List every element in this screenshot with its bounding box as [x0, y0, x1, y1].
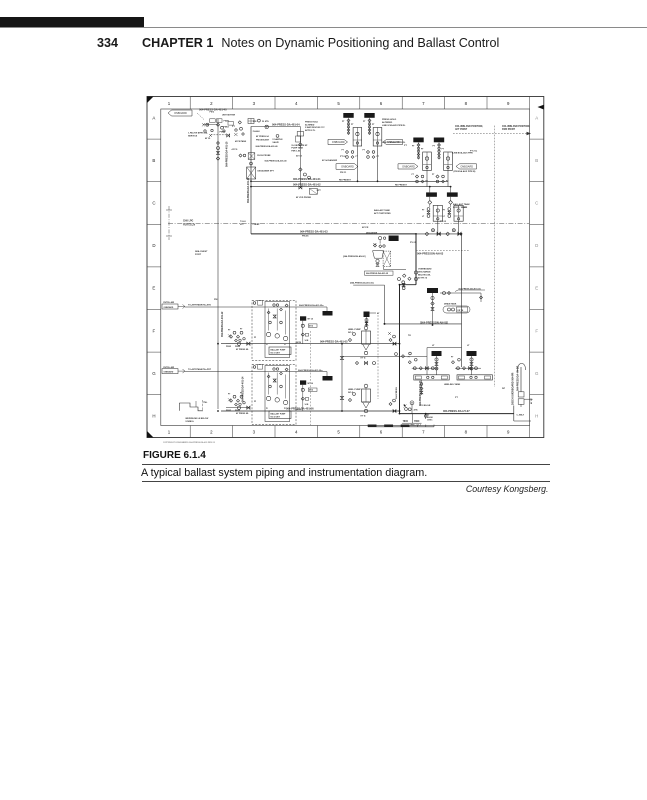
wire top horizontal H1 [251, 126, 300, 128]
ballast pump unit 2 [252, 365, 296, 425]
valve pair on V8 [414, 271, 417, 274]
svg-text:BELOW LWL: BELOW LWL [418, 274, 431, 276]
elbow rect gauge [297, 132, 303, 137]
svg-text:TO+WTRTANK/TA+PRT: TO+WTRTANK/TA+PRT [188, 368, 212, 371]
svg-text:7800: 7800 [403, 420, 409, 423]
H14 junction valves [389, 403, 392, 406]
svg-text:PM DESCENT: PM DESCENT [256, 140, 270, 142]
svg-text:B: B [535, 158, 538, 163]
wire vertical V1 tank feed [217, 119, 219, 409]
bottom instrument stack [410, 401, 414, 405]
svg-text:064-PRESS-DA-401-03: 064-PRESS-DA-401-03 [300, 230, 328, 234]
svg-text:064-PRESS-DA-401-05: 064-PRESS-DA-401-05 [320, 339, 348, 343]
svg-text:PT 21a: PT 21a [470, 151, 478, 153]
svg-text:H: H [152, 414, 155, 419]
svg-text:DR TK: DR TK [458, 310, 464, 312]
svg-text:CNTRL AIR: CNTRL AIR [163, 366, 175, 369]
svg-text:E: E [535, 286, 538, 291]
wire pump discharge H14 [221, 410, 400, 412]
drop assembly C13 [427, 288, 438, 293]
svg-text:COPYRIGHT KONGSBERG 064-PRESS: COPYRIGHT KONGSBERG 064-PRESS-DA-401 REV… [163, 441, 216, 444]
svg-text:TO+WTRTANK/TA+STD: TO+WTRTANK/TA+STD [188, 304, 211, 307]
instrument chain IC1 [300, 316, 306, 320]
instrument dashed H6 [416, 250, 470, 252]
svg-text:SEA CHEST: SEA CHEST [195, 250, 208, 253]
svg-text:OVERBOARD: OVERBOARD [418, 267, 432, 270]
wire bottom main H15 heavy [400, 413, 514, 415]
ballast pump unit 1 [252, 301, 296, 361]
svg-text:AT DP: AT DP [530, 397, 533, 404]
svg-text:AT PRESS 04: AT PRESS 04 [256, 135, 270, 138]
svg-text:PRESS HOLD: PRESS HOLD [305, 122, 319, 124]
heeling tank group 2 [467, 351, 477, 356]
svg-text:[064-PRESSON-AN-03]: [064-PRESSON-AN-03] [420, 321, 448, 325]
row letters [152, 115, 539, 418]
svg-text:LINE 3CM-AUX PIPE RL: LINE 3CM-AUX PIPE RL [382, 124, 406, 127]
svg-text:AT PRESS ML: AT PRESS ML [236, 348, 249, 351]
svg-text:ALTERED: ALTERED [305, 123, 315, 126]
svg-text:064-PRESS-DA-401-10: 064-PRESS-DA-401-10 [226, 141, 229, 167]
svg-text:G: G [152, 371, 156, 376]
svg-text:NO.2: NO.2 [348, 392, 354, 394]
svg-text:PM05: PM05 [226, 410, 231, 412]
junction dots [357, 180, 359, 182]
svg-text:DRAIN TANK: DRAIN TANK [444, 303, 457, 306]
svg-text:BALLAST PUMP: BALLAST PUMP [271, 412, 287, 415]
svg-text:PM-05: PM-05 [302, 236, 309, 238]
pump valve column P1 [343, 113, 353, 118]
wire vertical V10 heeling supply [461, 234, 463, 367]
heel pump funnel F2 [364, 384, 368, 388]
svg-text:HT 'A': HT 'A' [361, 415, 367, 418]
degasser spt box [247, 167, 256, 179]
svg-text:FLASH: FLASH [253, 130, 260, 133]
header rule line [0, 27, 647, 28]
svg-text:XL DEGAS IN SP: XL DEGAS IN SP [291, 144, 308, 147]
wire heel discharge H12 [342, 355, 427, 357]
svg-text:AT 05: AT 05 [205, 137, 211, 140]
svg-text:D: D [535, 243, 538, 248]
svg-text:064-PRESS-DA-401-12: 064-PRESS-DA-401-12 [221, 311, 224, 337]
svg-text:064-PRESS-DA-401-11: 064-PRESS-DA-401-11 [247, 177, 250, 203]
drop column assembly D2 [447, 192, 458, 196]
valve circle on V2 [250, 162, 253, 165]
svg-text:BALLAST PUMP: BALLAST PUMP [271, 348, 287, 351]
wire control air H13 [185, 371, 327, 373]
svg-text:F: F [153, 328, 156, 333]
tag flag left of P1 [328, 139, 348, 144]
svg-text:RE PRESST: RE PRESST [339, 179, 352, 181]
running head [97, 36, 617, 50]
svg-text:PM05: PM05 [226, 346, 231, 348]
svg-text:T KLH: T KLH [240, 221, 246, 223]
tag flag left of P3 [398, 164, 418, 169]
svg-text:DEGASSER: DEGASSER [366, 231, 378, 234]
wire heavy vertical V8 [415, 234, 417, 285]
valve on H1 [265, 125, 268, 128]
svg-text:TO BILGE: TO BILGE [420, 405, 431, 407]
wire degasser outlet [383, 267, 385, 270]
svg-text:064-PRESS-DA-401-40: 064-PRESS-DA-401-40 [265, 159, 288, 162]
svg-text:WATERLINE LN BELOW: WATERLINE LN BELOW [185, 417, 208, 420]
wire H1 elbow down [299, 127, 301, 189]
svg-text:A: A [152, 115, 155, 120]
svg-text:PM05: PM05 [220, 132, 226, 134]
valves on V13 [340, 356, 343, 359]
svg-text:064-PRESS-DA-401-04: 064-PRESS-DA-401-04 [272, 122, 300, 126]
svg-text:ALTERED: ALTERED [382, 121, 393, 124]
svg-text:VALVE: VALVE [272, 141, 279, 144]
bottom tag texts [411, 414, 413, 424]
reference dashed horizontal with arrow [453, 133, 531, 135]
svg-text:TK: TK [408, 335, 411, 337]
svg-text:4PCS/TANK: 4PCS/TANK [235, 140, 247, 143]
svg-text:PM06: PM06 [235, 346, 240, 348]
svg-text:NO.1 UNIT: NO.1 UNIT [271, 352, 281, 354]
drain tank C14 [443, 292, 446, 295]
svg-text:DEGASSER SPT: DEGASSER SPT [258, 170, 275, 173]
cluster C1 mid valves [238, 121, 241, 124]
tag flag right of P2 [383, 139, 403, 144]
svg-text:E: E [152, 286, 155, 291]
svg-text:X SAMPLE: X SAMPLE [272, 138, 283, 141]
svg-text:PM 11: PM 11 [340, 172, 347, 174]
svg-text:[064-PRESS-DA-401-05]: [064-PRESS-DA-401-05] [350, 282, 374, 285]
svg-text:ONBOARD: ONBOARD [402, 165, 415, 168]
wire crossover H5 heavy [251, 233, 416, 235]
wire jog to V9 [400, 284, 417, 286]
cluster C5 thrust [299, 168, 302, 171]
svg-text:AT14: AT14 [309, 389, 313, 392]
instrument dashed drop [377, 315, 379, 399]
wire vertical V2 recycle [250, 127, 252, 234]
svg-text:7860: 7860 [414, 420, 420, 423]
courtesy line [141, 484, 549, 494]
heel pump funnel F1 [364, 326, 368, 330]
heeling drain stub [421, 380, 423, 395]
wire control air H9 [185, 306, 327, 308]
instrument chain IC2 [300, 380, 306, 384]
valve pair on V1 [217, 147, 220, 150]
svg-text:NO.1: NO.1 [348, 332, 354, 334]
pump valve column P3 [413, 138, 423, 143]
valve pair left of funnel 1 [353, 333, 356, 336]
label box 401-05 degasser [365, 271, 394, 275]
corner crop marks [147, 97, 154, 104]
wire vertical V12 [353, 284, 384, 286]
svg-text:AT 03: AT 03 [296, 155, 303, 158]
fhos probe cluster [239, 154, 242, 157]
svg-text:064-PRESS: 064-PRESS [395, 387, 398, 399]
tag flag onboard inlet [168, 110, 192, 116]
svg-text:BALLAST TANK: BALLAST TANK [374, 209, 390, 212]
svg-text:PM: PM [214, 299, 217, 301]
flag 7800 stub bottom [326, 372, 328, 376]
svg-text:PORT: PORT [195, 254, 202, 256]
svg-text:SYMBOL: SYMBOL [185, 421, 194, 423]
svg-text:ONBOARD: ONBOARD [164, 370, 174, 373]
window probe box [248, 119, 254, 124]
svg-text:HEEL PUMP: HEEL PUMP [348, 389, 361, 391]
bilge stub [425, 414, 427, 419]
svg-text:D: D [152, 243, 155, 248]
svg-text:PORT / STBD: PORT / STBD [453, 207, 467, 209]
svg-text:PER 1-80: PER 1-80 [291, 150, 301, 152]
svg-text:SETA: SETA [296, 408, 301, 411]
svg-text:COLUMN AND POSITION,: COLUMN AND POSITION, [502, 125, 530, 128]
svg-text:PM03: PM03 [224, 127, 230, 129]
svg-text:RE PRESST: RE PRESST [395, 185, 408, 187]
svg-text:ONBOARD: ONBOARD [341, 166, 354, 169]
svg-text:CHKAP: CHKAP [253, 223, 261, 226]
svg-text:H: H [535, 414, 538, 419]
margin inner frame [161, 109, 530, 426]
svg-text:AFT PORT/STBD: AFT PORT/STBD [374, 212, 391, 215]
svg-text:064-PRESS-DA-401-06a: 064-PRESS-DA-401-06a [298, 369, 323, 372]
svg-text:064-PRESS-DA-401-40: 064-PRESS-DA-401-40 [256, 145, 279, 148]
svg-text:FHOS PROBE: FHOS PROBE [257, 155, 271, 157]
svg-text:C: C [152, 201, 155, 206]
svg-text:AT FR 74: AT FR 74 [418, 276, 428, 279]
svg-text:SPT: SPT [317, 190, 322, 192]
valve pair on H12 [395, 353, 398, 356]
svg-text:064-PRESS-DA-401-01: 064-PRESS-DA-401-01 [293, 177, 321, 181]
wire pump discharge H11 [221, 343, 400, 345]
svg-text:3-WAY RESCUE 21'C: 3-WAY RESCUE 21'C [305, 126, 325, 129]
pump valve column P2 [364, 113, 374, 118]
svg-text:064-PRESS-DA-HY-07: 064-PRESS-DA-HY-07 [443, 409, 470, 413]
svg-text:AHC: AHC [414, 409, 419, 412]
wire vertical V13 pump cross [341, 344, 343, 411]
svg-text:FOR ECCN: FOR ECCN [183, 225, 195, 227]
sea suction symbol [179, 403, 203, 411]
svg-text:HEELING TANK: HEELING TANK [444, 383, 461, 386]
diagram frame outer border [147, 97, 544, 438]
svg-text:C: C [535, 201, 538, 206]
svg-text:PT 03: PT 03 [340, 156, 347, 158]
svg-text:ONBOARD: ONBOARD [332, 141, 345, 144]
column numbers [168, 101, 510, 435]
svg-text:SERVICE: SERVICE [188, 136, 198, 138]
svg-text:SETA: SETA [296, 341, 301, 344]
svg-text:PV 02: PV 02 [440, 221, 447, 223]
top and bottom margin column dividers [190, 97, 529, 438]
svg-text:ONBOARD: ONBOARD [164, 306, 174, 309]
svg-text:064-PRESS-DA-401-02: 064-PRESS-DA-401-02 [293, 182, 321, 186]
svg-text:AT PRESS ML: AT PRESS ML [236, 412, 249, 415]
wire presson line H10 [385, 323, 462, 325]
valve pair left of funnel 2 [353, 393, 356, 396]
svg-text:WELL 1-1-1: WELL 1-1-1 [410, 424, 422, 426]
svg-text:FWD POINT: FWD POINT [502, 129, 515, 131]
svg-text:DISCHARGE: DISCHARGE [418, 270, 431, 273]
svg-text:DP: DP [502, 388, 506, 390]
svg-text:HT 'A': HT 'A' [361, 357, 367, 360]
side margin row dividers [147, 139, 544, 395]
svg-text:CHK LPG: CHK LPG [183, 220, 194, 222]
svg-text:AT FR: AT FR [362, 226, 369, 229]
reference dashed vertical V11 [494, 126, 496, 387]
svg-text:A: A [535, 115, 538, 120]
drop column assembly D1 [426, 192, 437, 196]
svg-text:(PE BOA-AUX PIPE B): (PE BOA-AUX PIPE B) [454, 170, 476, 173]
wire ballast main H2 [251, 180, 448, 182]
sample valve marks [276, 135, 279, 138]
junction cluster below degasser [403, 274, 406, 277]
centreline dash-dot [168, 223, 529, 225]
svg-text:COLUMN AND POSITION,: COLUMN AND POSITION, [455, 125, 483, 128]
H11 junction valves [389, 339, 392, 342]
svg-text:PUMP TANK: PUMP TANK [291, 147, 303, 150]
figure caption [141, 467, 427, 479]
svg-text:AT14: AT14 [309, 325, 313, 328]
valve cluster C1 node top [203, 124, 218, 126]
wire ballast main H3 [251, 186, 451, 188]
flag 7800 stub top [326, 307, 328, 311]
overboard discharge column [520, 367, 522, 392]
tag flag right of P4 [456, 164, 477, 169]
svg-text:PRESS HOLD: PRESS HOLD [382, 119, 397, 121]
wire heavy vertical V9 overboard [399, 285, 401, 414]
svg-text:AT 04 DANGER: AT 04 DANGER [322, 159, 338, 162]
svg-text:PV 01: PV 01 [410, 242, 417, 244]
svg-text:C-XBLT: C-XBLT [517, 415, 525, 417]
svg-text:AT HYD PROBE: AT HYD PROBE [296, 196, 312, 199]
wire heeling bracket [427, 347, 462, 349]
svg-text:[064-PRESSON-AN-02]: [064-PRESSON-AN-02] [343, 255, 366, 258]
overboard box [513, 406, 515, 422]
svg-text:CHKC: CHKC [427, 419, 433, 421]
graphic scale bar [368, 426, 434, 428]
figure number [143, 450, 206, 461]
svg-text:LINE 3CA-AUX PIPE RL: LINE 3CA-AUX PIPE RL [382, 141, 406, 144]
svg-text:B: B [152, 158, 155, 163]
pump valve column P4 [434, 138, 444, 143]
extra C1 fittings [211, 129, 213, 131]
svg-text:064-PRESS-DA-401-05a: 064-PRESS-DA-401-05a [299, 304, 324, 307]
svg-text:F: F [535, 328, 538, 333]
svg-text:ONBOARD: ONBOARD [460, 165, 473, 168]
svg-text:AFT POINT: AFT POINT [455, 128, 468, 131]
svg-text:4 PCS: 4 PCS [232, 148, 238, 151]
svg-text:PM06: PM06 [235, 410, 240, 412]
heeling tank group 1 [432, 351, 442, 356]
assembly C15 funnel head [364, 312, 370, 318]
svg-text:064-PRESSON-AN-03: 064-PRESSON-AN-03 [417, 251, 444, 255]
svg-text:UNIT SETTER: UNIT SETTER [222, 115, 236, 117]
svg-text:DISCH OVERBOARD 064-PR: DISCH OVERBOARD 064-PR [512, 372, 515, 405]
header black bar [0, 17, 144, 27]
svg-text:BALLAST TANK: BALLAST TANK [453, 203, 470, 206]
svg-text:G: G [535, 371, 539, 376]
svg-text:W. MTL: W. MTL [262, 121, 270, 123]
svg-text:APPR 2 PL: APPR 2 PL [305, 129, 316, 132]
degasser unit [379, 237, 382, 240]
svg-text:STC: STC [240, 224, 244, 226]
heel valves between funnels [355, 361, 358, 364]
svg-text:PM: PM [253, 121, 256, 123]
svg-text:ONBOARD: ONBOARD [174, 112, 187, 115]
svg-text:NO.2 UNIT: NO.2 UNIT [271, 416, 281, 418]
svg-text:064-PRESS-DA-401-05: 064-PRESS-DA-401-05 [366, 272, 389, 275]
svg-text:064-PRESS-DA-HY-DP: 064-PRESS-DA-HY-DP [516, 365, 519, 391]
ship centreline cross [168, 206, 170, 240]
svg-text:HEEL PUMP: HEEL PUMP [348, 329, 361, 331]
